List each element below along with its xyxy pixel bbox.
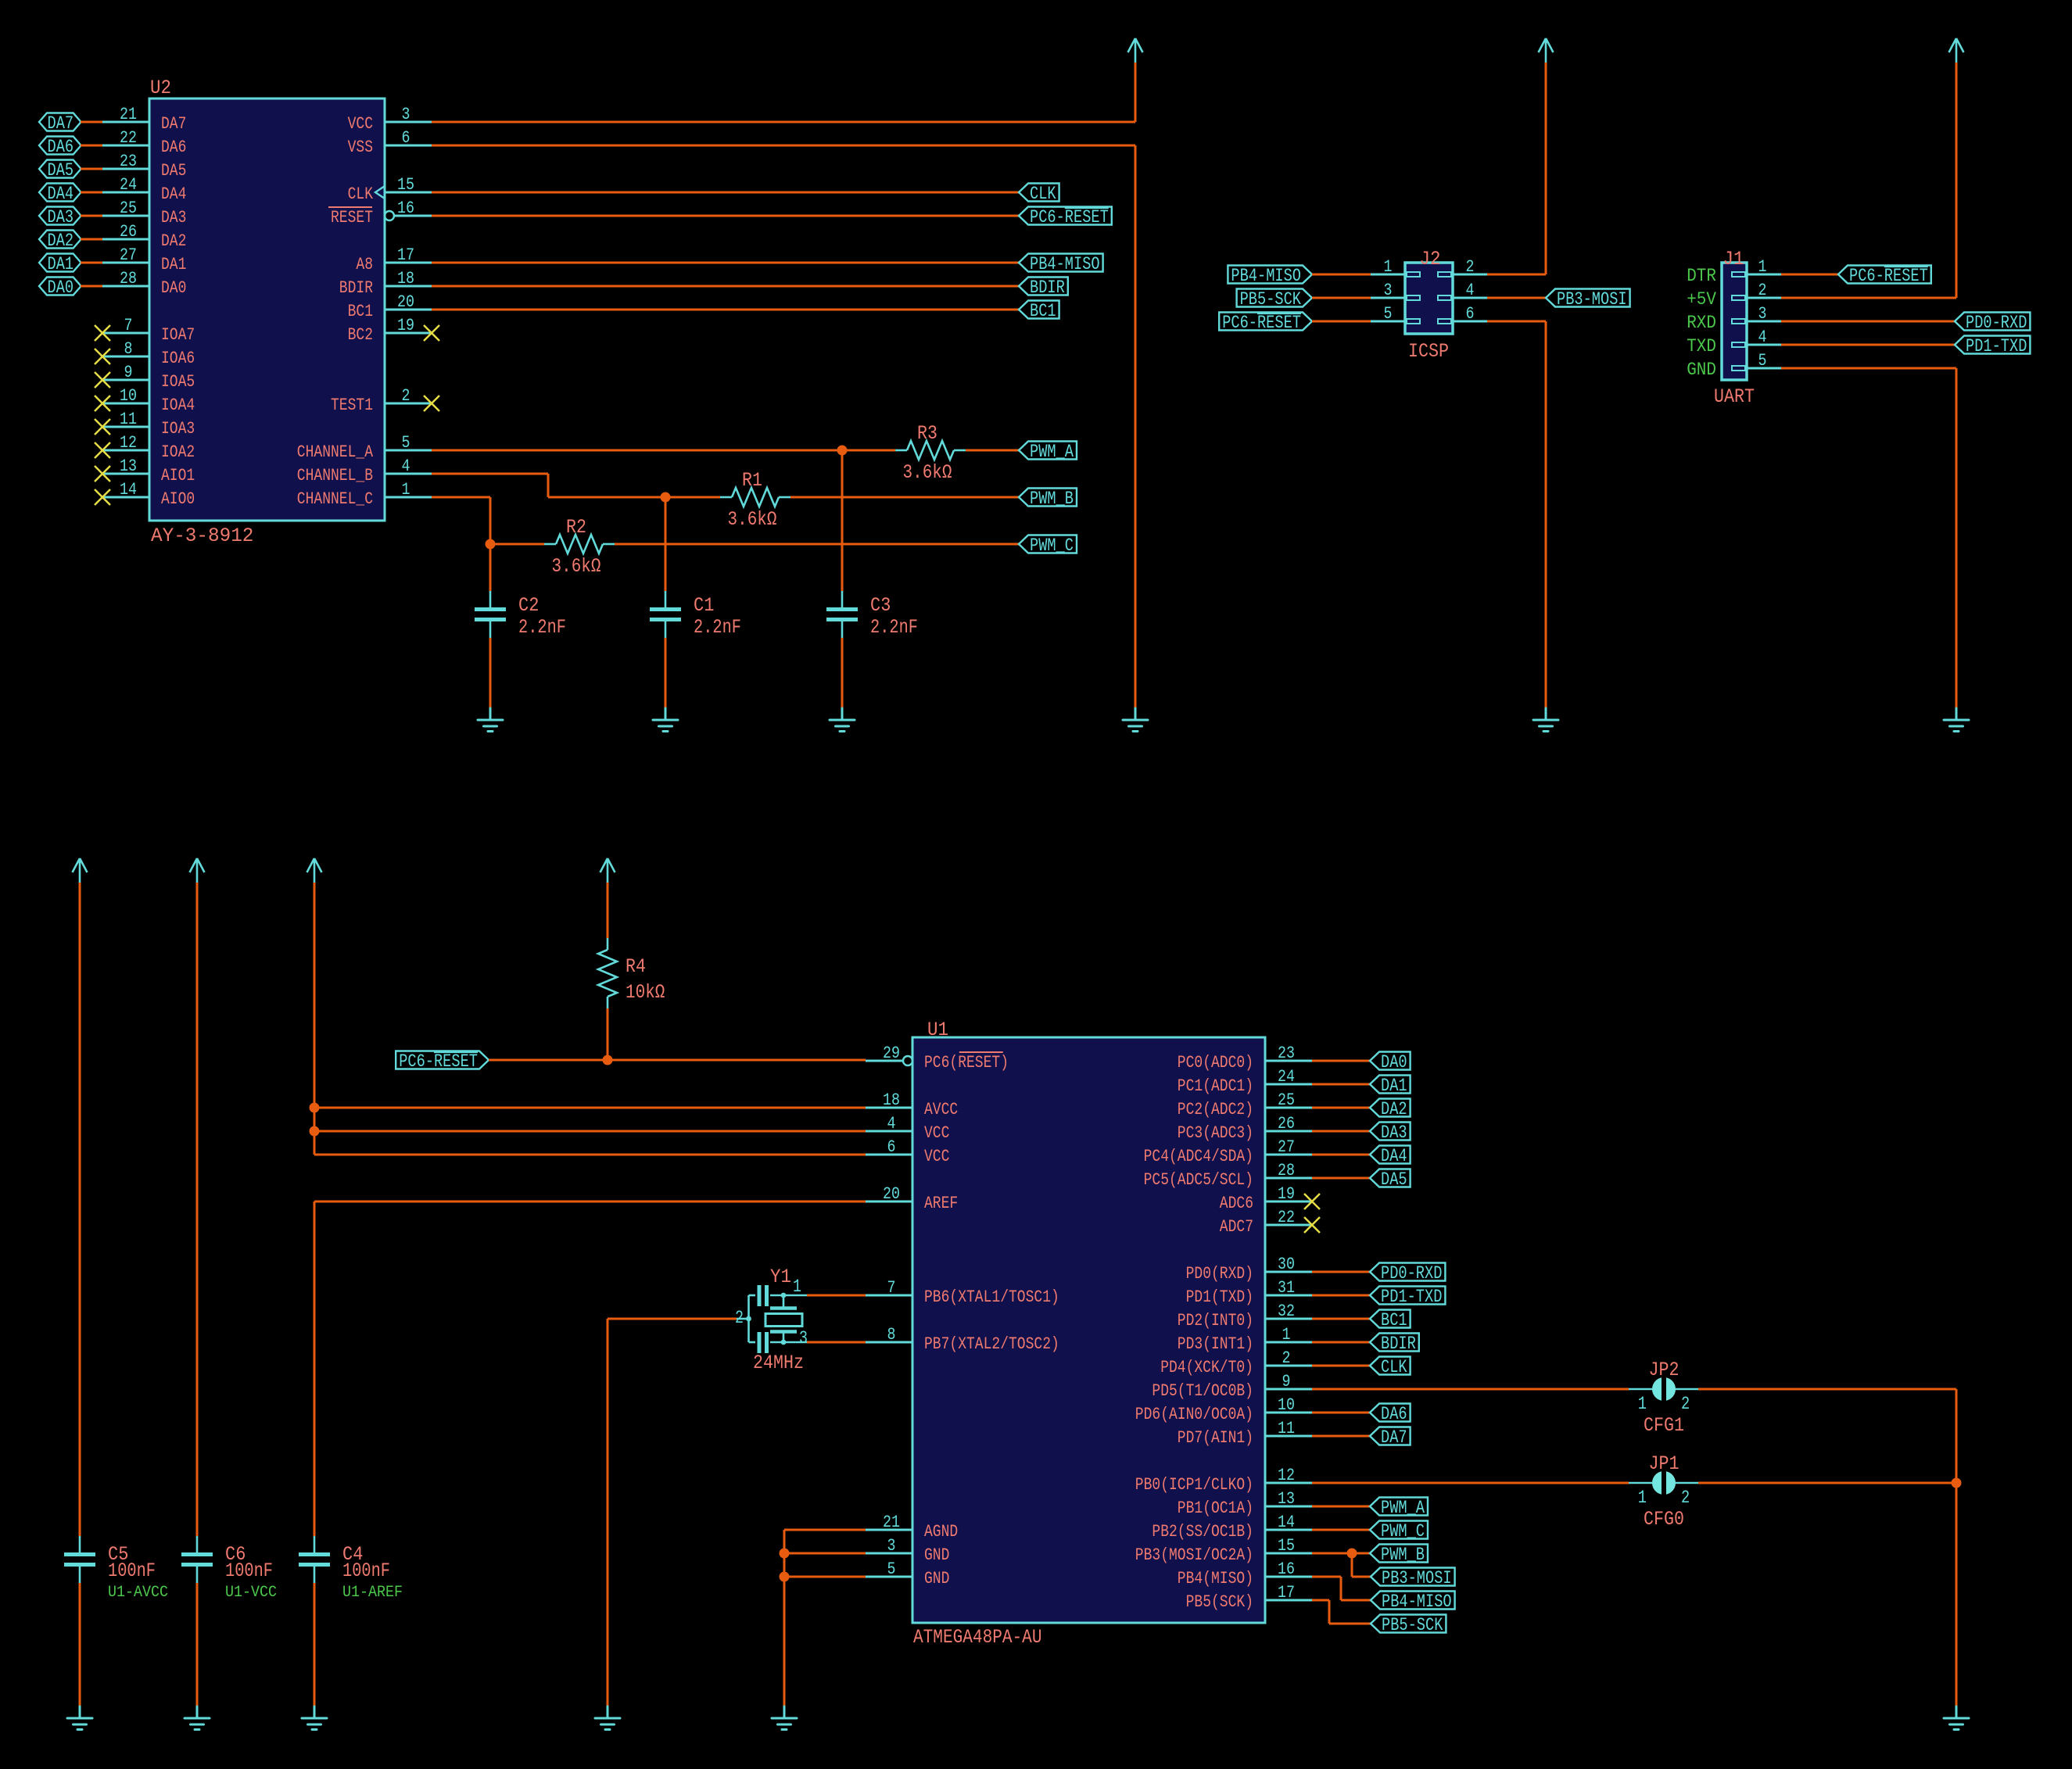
svg-text:10: 10 bbox=[120, 386, 137, 406]
svg-text:1: 1 bbox=[402, 480, 410, 500]
svg-text:DA3: DA3 bbox=[48, 207, 74, 227]
junction VCC bbox=[310, 1126, 320, 1137]
svg-text:DA2: DA2 bbox=[161, 231, 186, 251]
svg-text:100nF: 100nF bbox=[225, 1560, 273, 1582]
svg-text:2: 2 bbox=[1681, 1488, 1690, 1508]
wire VCC to U1.6 bbox=[314, 1154, 866, 1156]
net label DA3 bbox=[39, 207, 81, 228]
svg-text:PD0-RXD: PD0-RXD bbox=[1381, 1263, 1442, 1284]
net label BDIR bbox=[1370, 1334, 1419, 1355]
net label PWM_B bbox=[1019, 489, 1077, 510]
net label DA3 bbox=[1370, 1123, 1411, 1144]
svg-text:PB1(OC1A): PB1(OC1A) bbox=[1178, 1499, 1253, 1518]
net label BDIR bbox=[1019, 278, 1068, 299]
svg-text:29: 29 bbox=[883, 1044, 900, 1063]
svg-text:C2: C2 bbox=[518, 594, 539, 617]
svg-text:31: 31 bbox=[1278, 1278, 1295, 1298]
svg-text:3: 3 bbox=[887, 1536, 896, 1556]
svg-text:4: 4 bbox=[402, 457, 410, 476]
svg-text:17: 17 bbox=[397, 245, 414, 265]
U1 pin 11 (PD7(AIN1)) bbox=[1178, 1419, 1312, 1448]
wire DA4 from U1 bbox=[1312, 1154, 1370, 1156]
svg-text:PD1(TXD): PD1(TXD) bbox=[1186, 1287, 1253, 1307]
svg-text:C3: C3 bbox=[870, 594, 891, 617]
resistor R4 10kΩ bbox=[598, 938, 665, 1008]
svg-text:ADC7: ADC7 bbox=[1220, 1217, 1253, 1237]
svg-text:CHANNEL_C: CHANNEL_C bbox=[297, 489, 373, 509]
svg-text:PB5-SCK: PB5-SCK bbox=[1240, 289, 1302, 310]
svg-text:PC6-RESET: PC6-RESET bbox=[1222, 313, 1301, 333]
no-connect bbox=[95, 419, 110, 435]
svg-text:25: 25 bbox=[120, 199, 137, 218]
svg-text:RXD: RXD bbox=[1687, 313, 1716, 333]
svg-text:IOA7: IOA7 bbox=[161, 325, 195, 345]
svg-text:PD0(RXD): PD0(RXD) bbox=[1186, 1264, 1253, 1284]
reference J1 bbox=[1723, 248, 1744, 270]
net label PD0-RXD bbox=[1955, 313, 2030, 334]
wire DA2 to U2 bbox=[81, 238, 102, 241]
svg-text:DA1: DA1 bbox=[1381, 1076, 1407, 1096]
wire +5V column bbox=[314, 883, 316, 1155]
svg-text:PWM_A: PWM_A bbox=[1030, 442, 1074, 462]
net label DA0 bbox=[39, 278, 81, 299]
wire CFG GND drop bbox=[1955, 1483, 1958, 1706]
svg-text:27: 27 bbox=[120, 245, 137, 265]
wire +5V U2.VCC bbox=[432, 121, 1135, 124]
wire Y1 GND drop bbox=[607, 1319, 609, 1706]
svg-text:DA5: DA5 bbox=[1381, 1169, 1407, 1190]
net label BC1 bbox=[1019, 301, 1059, 322]
ground (Y1) bbox=[595, 1706, 620, 1730]
ground (C2) bbox=[478, 708, 503, 732]
wire DA3 to U2 bbox=[81, 215, 102, 217]
U2 pin 8 (IOA6) bbox=[102, 339, 195, 368]
capacitor C3 2.2nF bbox=[826, 591, 918, 639]
no-connect U1.ADC7 bbox=[1304, 1217, 1320, 1233]
svg-text:A8: A8 bbox=[356, 255, 373, 274]
svg-text:PB4-MISO: PB4-MISO bbox=[1382, 1592, 1452, 1612]
svg-text:3: 3 bbox=[1758, 304, 1767, 324]
wire PB4-MISO to J2.1 bbox=[1312, 274, 1371, 276]
U2 pin 22 (DA6) bbox=[102, 128, 186, 157]
U2 pin 18 (BDIR) bbox=[339, 269, 432, 298]
wire PB5-SCK to label bbox=[1329, 1623, 1371, 1625]
IC U2 AY-3-8912 body bbox=[149, 98, 385, 521]
net label PC6-RESET bbox=[1019, 207, 1112, 228]
svg-text:TXD: TXD bbox=[1687, 336, 1716, 356]
no-connect bbox=[95, 325, 110, 341]
svg-text:24: 24 bbox=[120, 175, 137, 195]
wire J1.2 +5V bbox=[1781, 297, 1956, 299]
wire CLK from U1 bbox=[1312, 1365, 1370, 1367]
wire DA6 from U1 bbox=[1312, 1412, 1370, 1414]
svg-text:20: 20 bbox=[883, 1184, 900, 1204]
svg-text:DA0: DA0 bbox=[161, 278, 186, 298]
svg-text:7: 7 bbox=[887, 1278, 896, 1298]
svg-text:R2: R2 bbox=[566, 516, 586, 539]
svg-text:R3: R3 bbox=[917, 422, 937, 445]
U1 pin 17 (PB5(SCK)) bbox=[1186, 1583, 1312, 1612]
svg-text:PB3-MOSI: PB3-MOSI bbox=[1382, 1568, 1452, 1588]
svg-text:1: 1 bbox=[1282, 1325, 1291, 1345]
svg-text:22: 22 bbox=[1278, 1208, 1295, 1227]
wire +5V from J2.2 bbox=[1487, 274, 1546, 276]
value AY-3-8912 bbox=[151, 525, 253, 547]
svg-text:U1-AREF: U1-AREF bbox=[342, 1584, 403, 1602]
wire VCC to U1.4 bbox=[314, 1130, 866, 1133]
svg-text:IOA6: IOA6 bbox=[161, 349, 195, 368]
svg-text:9: 9 bbox=[124, 363, 133, 382]
svg-text:PC0(ADC0): PC0(ADC0) bbox=[1178, 1053, 1253, 1073]
ground (C6) bbox=[185, 1706, 210, 1730]
wire Y1.1 to U1.PB6 bbox=[807, 1295, 866, 1297]
svg-text:RESET: RESET bbox=[331, 208, 373, 227]
junction CFG nets bbox=[1952, 1478, 1962, 1488]
U1 pin 25 (PC2(ADC2)) bbox=[1178, 1090, 1312, 1119]
wire C4 bottom bbox=[314, 1583, 316, 1706]
svg-text:10: 10 bbox=[1278, 1395, 1295, 1415]
value ATMEGA48PA-AU bbox=[913, 1626, 1042, 1649]
no-connect bbox=[95, 396, 110, 411]
U2 pin 6 (VSS) bbox=[348, 128, 432, 157]
svg-text:12: 12 bbox=[120, 433, 137, 453]
ground (JP) bbox=[1944, 1706, 1969, 1730]
net label PC6-RESET bbox=[1838, 266, 1931, 287]
svg-text:28: 28 bbox=[120, 269, 137, 288]
svg-text:3.6kΩ: 3.6kΩ bbox=[552, 555, 601, 578]
svg-text:8: 8 bbox=[887, 1325, 896, 1345]
U1 pin 1 (PD3(INT1)) bbox=[1178, 1325, 1312, 1354]
svg-text:5: 5 bbox=[1758, 351, 1767, 371]
J1 pin 2 (+5V) bbox=[1687, 281, 1781, 310]
wire +5V riser (J1) bbox=[1955, 63, 1958, 298]
capacitor C4 100nF bbox=[299, 1536, 403, 1602]
U2 pin 26 (DA2) bbox=[102, 222, 186, 251]
svg-text:2.2nF: 2.2nF bbox=[518, 616, 566, 639]
svg-text:4: 4 bbox=[1466, 281, 1475, 300]
wire CLK bbox=[432, 192, 1019, 194]
net label PWM_C bbox=[1370, 1521, 1428, 1542]
power +5V (U1) bbox=[307, 858, 322, 883]
svg-text:U1-VCC: U1-VCC bbox=[225, 1584, 277, 1602]
net label DA5 bbox=[1370, 1169, 1411, 1191]
U1 pin 29 (PC6(RESET)) bbox=[866, 1044, 1009, 1073]
U2 pin 23 (DA5) bbox=[102, 152, 186, 181]
ground (J1) bbox=[1944, 708, 1969, 732]
svg-text:2: 2 bbox=[1681, 1394, 1690, 1414]
svg-text:2: 2 bbox=[1758, 281, 1767, 300]
svg-text:IOA3: IOA3 bbox=[161, 419, 195, 439]
svg-text:1: 1 bbox=[793, 1277, 801, 1297]
wire DA6 to U2 bbox=[81, 145, 102, 147]
junction GND U1.5 bbox=[780, 1572, 790, 1582]
wire PWM_B from U1 bbox=[1312, 1552, 1370, 1555]
net label PC6-RESET bbox=[396, 1051, 489, 1073]
value ICSP bbox=[1408, 340, 1449, 363]
svg-text:DA6: DA6 bbox=[161, 138, 186, 157]
J2 pin 6 bbox=[1438, 304, 1487, 324]
U2 pin 14 (AIO0) bbox=[102, 480, 195, 509]
wire GND drop bbox=[1135, 145, 1137, 708]
wire CFG0 from JP1 bbox=[1698, 1482, 1956, 1484]
net label PB4-MISO bbox=[1228, 266, 1312, 287]
wire DA0 to U2 bbox=[81, 285, 102, 288]
capacitor C5 100nF bbox=[64, 1536, 168, 1602]
ground (U2 VSS) bbox=[1123, 708, 1148, 732]
no-connect bbox=[95, 349, 110, 364]
power +5V (J2) bbox=[1539, 38, 1554, 63]
svg-text:PD3(INT1): PD3(INT1) bbox=[1178, 1334, 1253, 1354]
wire GND drop (J1) bbox=[1955, 368, 1958, 708]
svg-text:ADC6: ADC6 bbox=[1220, 1194, 1253, 1213]
svg-text:ICSP: ICSP bbox=[1408, 340, 1449, 363]
wire PWM_B to label bbox=[790, 496, 1019, 499]
svg-text:U1-AVCC: U1-AVCC bbox=[108, 1584, 168, 1602]
J2 pin 3 bbox=[1371, 281, 1420, 300]
junction PC6-RESET / R4 bbox=[603, 1055, 613, 1065]
svg-text:CFG1: CFG1 bbox=[1644, 1414, 1684, 1437]
svg-text:C1: C1 bbox=[694, 594, 714, 617]
svg-text:4: 4 bbox=[1758, 328, 1767, 347]
svg-text:CLK: CLK bbox=[348, 184, 374, 204]
J2 pin 4 bbox=[1438, 281, 1487, 300]
reference U1 bbox=[927, 1019, 948, 1041]
svg-text:32: 32 bbox=[1278, 1302, 1295, 1321]
svg-text:20: 20 bbox=[397, 292, 414, 312]
svg-text:VCC: VCC bbox=[924, 1147, 949, 1166]
svg-text:GND: GND bbox=[1687, 360, 1716, 380]
U1 pin 21 (AGND) bbox=[866, 1513, 958, 1542]
svg-text:BC1: BC1 bbox=[1030, 301, 1056, 321]
net label PWM_A bbox=[1019, 442, 1077, 463]
svg-text:23: 23 bbox=[120, 152, 137, 171]
wire DA2 from U1 bbox=[1312, 1107, 1370, 1109]
net label DA6 bbox=[1370, 1404, 1411, 1425]
svg-text:VSS: VSS bbox=[348, 138, 373, 157]
power +5V (C6) bbox=[190, 858, 205, 883]
wire PB3-MOSI drop bbox=[1351, 1553, 1353, 1577]
U1 pin 7 (PB6(XTAL1/TOSC1)) bbox=[866, 1278, 1059, 1307]
svg-text:2.2nF: 2.2nF bbox=[870, 616, 918, 639]
reference U2 bbox=[150, 77, 171, 99]
svg-text:CLK: CLK bbox=[1030, 184, 1056, 204]
wire PB4-MISO to label bbox=[1341, 1599, 1371, 1602]
wire PWM_A from U1 bbox=[1312, 1506, 1370, 1508]
svg-text:PB4-MISO: PB4-MISO bbox=[1231, 266, 1301, 286]
svg-text:26: 26 bbox=[1278, 1114, 1295, 1133]
svg-text:21: 21 bbox=[883, 1513, 900, 1532]
wire C2 top bbox=[489, 544, 492, 591]
U2 pin 25 (DA3) bbox=[102, 199, 186, 227]
wire AVCC to U1.18 bbox=[314, 1107, 866, 1109]
power +5V (top center) bbox=[1128, 38, 1143, 63]
U1 pin 15 (PB3(MOSI/OC2A)) bbox=[1135, 1536, 1312, 1565]
svg-text:30: 30 bbox=[1278, 1255, 1295, 1274]
ground (C4) bbox=[302, 1706, 327, 1730]
svg-text:PC4(ADC4/SDA): PC4(ADC4/SDA) bbox=[1144, 1147, 1253, 1166]
wire PWM_A to label bbox=[966, 449, 1019, 452]
U1 pin 10 (PD6(AIN0/OC0A)) bbox=[1135, 1395, 1312, 1424]
wire PC6-RESET bbox=[432, 215, 1019, 217]
svg-text:3.6kΩ: 3.6kΩ bbox=[728, 508, 777, 531]
U1 pin 32 (PD2(INT0)) bbox=[1178, 1302, 1312, 1330]
svg-text:PWM_B: PWM_B bbox=[1381, 1545, 1425, 1565]
svg-text:PB5-SCK: PB5-SCK bbox=[1382, 1615, 1443, 1635]
net label PWM_C bbox=[1019, 535, 1077, 557]
U2 pin 21 (DA7) bbox=[102, 105, 186, 134]
U2 pin 3 (VCC) bbox=[348, 105, 432, 134]
wire DA5 to U2 bbox=[81, 168, 102, 170]
wire GND column U1 bbox=[783, 1530, 786, 1706]
svg-text:UART: UART bbox=[1714, 385, 1755, 408]
svg-text:PWM_A: PWM_A bbox=[1381, 1498, 1425, 1518]
wire CHANNEL_A bbox=[432, 449, 895, 452]
svg-text:18: 18 bbox=[883, 1090, 900, 1110]
svg-text:JP2: JP2 bbox=[1649, 1359, 1679, 1381]
wire PB5-SCK to J2.3 bbox=[1312, 297, 1371, 299]
J1 pin 3 (RXD) bbox=[1687, 304, 1781, 333]
svg-text:BDIR: BDIR bbox=[339, 278, 373, 298]
svg-text:DA7: DA7 bbox=[48, 113, 74, 134]
svg-text:IOA5: IOA5 bbox=[161, 372, 195, 392]
svg-text:CHANNEL_A: CHANNEL_A bbox=[297, 442, 374, 462]
svg-text:BC1: BC1 bbox=[348, 302, 373, 321]
net label DA1 bbox=[39, 254, 81, 275]
U2 pin 28 (DA0) bbox=[102, 269, 186, 298]
svg-text:PC5(ADC5/SCL): PC5(ADC5/SCL) bbox=[1144, 1170, 1253, 1190]
net label PD1-TXD bbox=[1370, 1287, 1445, 1308]
power +5V (C5) bbox=[73, 858, 88, 883]
U1 pin 3 (GND) bbox=[866, 1536, 949, 1565]
svg-text:1: 1 bbox=[1638, 1394, 1647, 1414]
resistor R1 3.6kΩ bbox=[720, 469, 790, 531]
svg-text:U1: U1 bbox=[927, 1019, 948, 1041]
net label DA2 bbox=[1370, 1099, 1411, 1120]
U1 pin 8 (PB7(XTAL2/TOSC2)) bbox=[866, 1325, 1059, 1354]
net label DA6 bbox=[39, 137, 81, 158]
J1 pin 4 (TXD) bbox=[1687, 328, 1781, 356]
svg-text:PB3(MOSI/OC2A): PB3(MOSI/OC2A) bbox=[1135, 1545, 1253, 1565]
svg-text:PC6-RESET: PC6-RESET bbox=[1849, 266, 1928, 286]
capacitor C6 100nF bbox=[181, 1536, 277, 1602]
net label DA7 bbox=[39, 113, 81, 134]
svg-text:11: 11 bbox=[120, 410, 137, 429]
wire BC1 from U1 bbox=[1312, 1318, 1370, 1320]
wire C5 top column bbox=[79, 883, 81, 1536]
jumper JP1 CFG0 bbox=[1629, 1452, 1699, 1531]
svg-text:DA1: DA1 bbox=[48, 254, 74, 274]
net label DA1 bbox=[1370, 1076, 1411, 1097]
junction PWM_A / C3 bbox=[837, 446, 848, 456]
wire DA1 from U1 bbox=[1312, 1083, 1370, 1086]
wire C5 bottom bbox=[79, 1583, 81, 1706]
wire R4 bottom bbox=[607, 1008, 609, 1060]
svg-text:17: 17 bbox=[1278, 1583, 1295, 1602]
ground (J2) bbox=[1533, 708, 1558, 732]
wire PC6-RESET to J2.5 bbox=[1312, 320, 1371, 323]
svg-text:PB4-MISO: PB4-MISO bbox=[1030, 254, 1100, 274]
svg-text:PC3(ADC3): PC3(ADC3) bbox=[1178, 1123, 1253, 1143]
wire DA5 from U1 bbox=[1312, 1177, 1370, 1180]
svg-text:28: 28 bbox=[1278, 1161, 1295, 1180]
no-connect U2.TEST1 bbox=[424, 396, 439, 411]
wire C1 top bbox=[665, 497, 667, 591]
svg-text:ATMEGA48PA-AU: ATMEGA48PA-AU bbox=[913, 1626, 1042, 1649]
U2 pin 27 (DA1) bbox=[102, 245, 186, 274]
svg-text:DA0: DA0 bbox=[48, 278, 74, 298]
net label PB4-MISO bbox=[1019, 254, 1103, 275]
J2 pin 1 bbox=[1371, 257, 1420, 277]
svg-text:BDIR: BDIR bbox=[1381, 1334, 1416, 1354]
svg-text:VCC: VCC bbox=[924, 1123, 949, 1143]
U2 pin 10 (IOA4) bbox=[102, 386, 195, 415]
wire C6 top column bbox=[196, 883, 199, 1536]
svg-text:PD4(XCK/T0): PD4(XCK/T0) bbox=[1160, 1358, 1253, 1377]
wire CHANNEL_C bbox=[432, 496, 490, 499]
svg-text:DA4: DA4 bbox=[161, 184, 186, 204]
svg-text:PB7(XTAL2/TOSC2): PB7(XTAL2/TOSC2) bbox=[924, 1334, 1059, 1354]
svg-text:24MHz: 24MHz bbox=[753, 1352, 804, 1374]
no-connect bbox=[95, 372, 110, 388]
wire C6 bottom bbox=[196, 1583, 199, 1706]
wire J1.4 TXD bbox=[1781, 344, 1955, 346]
connector J2 ICSP body bbox=[1405, 263, 1453, 334]
svg-text:PB5(SCK): PB5(SCK) bbox=[1186, 1592, 1253, 1612]
svg-text:PD6(AIN0/OC0A): PD6(AIN0/OC0A) bbox=[1135, 1405, 1253, 1424]
U1 pin 28 (PC5(ADC5/SCL)) bbox=[1144, 1161, 1312, 1190]
wire Y1.3 to U1.PB7 bbox=[807, 1341, 866, 1344]
svg-text:19: 19 bbox=[397, 316, 414, 335]
svg-text:DA1: DA1 bbox=[161, 255, 186, 274]
net label DA4 bbox=[1370, 1146, 1411, 1167]
svg-text:6: 6 bbox=[1466, 304, 1475, 324]
wire PWM_C left bbox=[490, 543, 544, 546]
wire DA0 from U1 bbox=[1312, 1060, 1370, 1062]
svg-text:10kΩ: 10kΩ bbox=[626, 981, 665, 1004]
U2 pin 15 (CLK) bbox=[348, 175, 432, 204]
svg-text:PB3-MOSI: PB3-MOSI bbox=[1557, 289, 1627, 310]
svg-text:5: 5 bbox=[1384, 304, 1393, 324]
U2 pin 13 (AIO1) bbox=[102, 457, 195, 485]
no-connect U1.ADC6 bbox=[1304, 1194, 1320, 1209]
wire PB4-MISO from U1 bbox=[1312, 1576, 1341, 1578]
U1 pin 19 (ADC6) bbox=[1220, 1184, 1312, 1213]
svg-text:25: 25 bbox=[1278, 1090, 1295, 1110]
svg-text:R1: R1 bbox=[742, 469, 762, 492]
svg-text:+5V: +5V bbox=[1687, 289, 1716, 310]
U2 pin 7 (IOA7) bbox=[102, 316, 195, 345]
svg-text:7: 7 bbox=[124, 316, 133, 335]
wire BC1 bbox=[432, 309, 1019, 311]
svg-text:CFG0: CFG0 bbox=[1644, 1508, 1684, 1531]
U2 pin 11 (IOA3) bbox=[102, 410, 195, 439]
net label CLK bbox=[1019, 184, 1059, 205]
net label BC1 bbox=[1370, 1310, 1411, 1331]
svg-text:19: 19 bbox=[1278, 1184, 1295, 1204]
svg-text:16: 16 bbox=[397, 199, 414, 218]
wire PB5-SCK from U1 bbox=[1312, 1599, 1329, 1602]
wire DA1 to U2 bbox=[81, 262, 102, 264]
svg-text:DA3: DA3 bbox=[161, 208, 186, 227]
svg-text:PD5(T1/OC0B): PD5(T1/OC0B) bbox=[1152, 1381, 1253, 1401]
U1 pin 27 (PC4(ADC4/SDA)) bbox=[1144, 1137, 1312, 1166]
wire BDIR from U1 bbox=[1312, 1341, 1370, 1344]
svg-text:BC1: BC1 bbox=[1381, 1310, 1407, 1330]
wire CHANNEL_B bbox=[432, 473, 548, 475]
J1 pin 1 (DTR) bbox=[1687, 257, 1781, 286]
resistor R3 3.6kΩ bbox=[895, 422, 966, 484]
power +5V (R4) bbox=[600, 858, 615, 883]
